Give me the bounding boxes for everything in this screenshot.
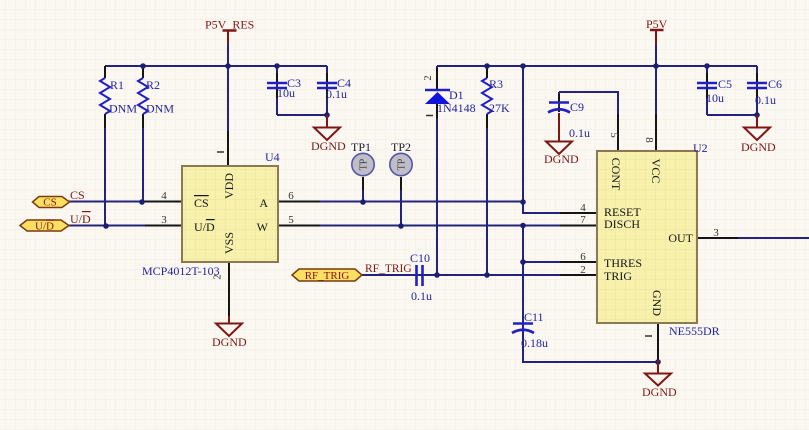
- svg-text:DGND: DGND: [741, 140, 776, 154]
- svg-text:U/D: U/D: [70, 212, 91, 226]
- svg-text:DGND: DGND: [311, 139, 346, 153]
- svg-text:CS: CS: [194, 196, 209, 210]
- svg-text:7: 7: [580, 214, 586, 226]
- svg-text:VDD: VDD: [222, 173, 236, 199]
- svg-text:MCP4012T-103: MCP4012T-103: [142, 264, 220, 278]
- svg-text:2: 2: [213, 275, 224, 280]
- svg-text:5: 5: [608, 132, 620, 138]
- svg-text:8: 8: [643, 137, 655, 143]
- svg-text:C6: C6: [768, 77, 782, 91]
- svg-text:DGND: DGND: [212, 335, 247, 349]
- svg-text:CONT: CONT: [609, 158, 623, 191]
- svg-text:DGND: DGND: [544, 152, 579, 166]
- svg-text:10u: 10u: [277, 86, 295, 100]
- svg-text:2: 2: [423, 76, 434, 81]
- svg-text:C11: C11: [524, 310, 544, 324]
- svg-text:DISCH: DISCH: [604, 217, 640, 231]
- svg-text:0.1u: 0.1u: [326, 87, 347, 101]
- svg-text:3: 3: [713, 227, 719, 239]
- svg-text:W: W: [257, 220, 269, 234]
- svg-text:P5V: P5V: [646, 17, 668, 31]
- svg-text:CS: CS: [70, 188, 85, 202]
- svg-text:DNM: DNM: [146, 102, 174, 116]
- svg-text:0.18u: 0.18u: [521, 336, 548, 350]
- svg-text:VSS: VSS: [222, 232, 236, 254]
- svg-text:TP1: TP1: [351, 140, 371, 154]
- svg-text:A: A: [259, 196, 268, 210]
- svg-text:10u: 10u: [706, 91, 724, 105]
- svg-text:VCC: VCC: [649, 159, 663, 184]
- svg-text:C9: C9: [570, 100, 584, 114]
- svg-text:DNM: DNM: [109, 102, 137, 116]
- svg-text:R2: R2: [146, 78, 160, 92]
- svg-text:R1: R1: [110, 78, 124, 92]
- svg-text:6: 6: [580, 251, 586, 263]
- svg-text:0.1u: 0.1u: [411, 289, 432, 303]
- svg-text:U/D: U/D: [35, 221, 54, 233]
- svg-text:27K: 27K: [489, 101, 510, 115]
- svg-text:NE555DR: NE555DR: [669, 324, 720, 338]
- svg-text:U4: U4: [265, 150, 280, 164]
- svg-text:RF_TRIG: RF_TRIG: [365, 263, 412, 275]
- svg-text:TP: TP: [397, 158, 408, 170]
- svg-text:0.1u: 0.1u: [755, 93, 776, 107]
- svg-text:U/D: U/D: [194, 220, 215, 234]
- svg-text:RF_TRIG: RF_TRIG: [305, 270, 350, 282]
- svg-text:4: 4: [161, 190, 167, 202]
- svg-text:P5V_RES: P5V_RES: [205, 18, 254, 32]
- svg-text:6: 6: [288, 190, 294, 202]
- svg-text:OUT: OUT: [668, 231, 693, 245]
- svg-text:TP: TP: [359, 158, 370, 170]
- svg-text:CS: CS: [43, 197, 56, 209]
- svg-text:0.1u: 0.1u: [569, 126, 590, 140]
- svg-text:GND: GND: [650, 290, 664, 316]
- svg-text:2: 2: [580, 264, 586, 276]
- svg-text:R3: R3: [489, 77, 503, 91]
- svg-text:C5: C5: [718, 77, 732, 91]
- svg-text:4: 4: [580, 202, 586, 214]
- svg-text:DGND: DGND: [642, 385, 677, 399]
- svg-text:THRES: THRES: [604, 256, 642, 270]
- svg-text:1N4148: 1N4148: [437, 101, 476, 115]
- svg-text:3: 3: [161, 214, 167, 226]
- svg-text:C10: C10: [410, 251, 430, 265]
- svg-text:TP2: TP2: [391, 140, 411, 154]
- svg-text:U2: U2: [693, 141, 708, 155]
- svg-text:D1: D1: [449, 88, 464, 102]
- svg-text:5: 5: [288, 214, 294, 226]
- svg-text:TRIG: TRIG: [604, 269, 632, 283]
